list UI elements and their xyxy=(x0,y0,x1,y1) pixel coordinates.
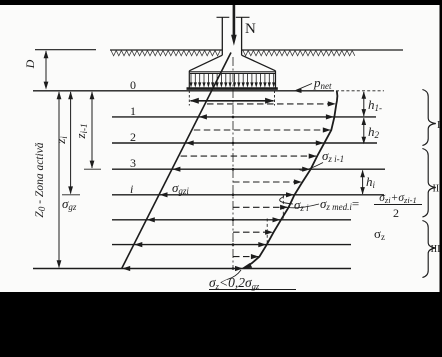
arrow to sigma-z curve xyxy=(286,192,294,197)
mid-layer dashed line xyxy=(207,103,335,105)
dimension h1 arrow xyxy=(363,92,365,116)
column cap tick right xyxy=(236,16,250,18)
comb top line xyxy=(190,73,275,75)
dimension zi arrow xyxy=(70,92,72,194)
arrow to sigma-z curve xyxy=(302,167,310,172)
load N arrow xyxy=(233,5,236,36)
svg-text:II: II xyxy=(433,184,440,195)
dimension Z0 arrow xyxy=(58,92,60,267)
contact pressure comb xyxy=(190,74,275,87)
svg-text:i: i xyxy=(130,182,133,196)
level line 7 xyxy=(33,268,351,270)
level line 6 xyxy=(112,244,351,246)
footing base thick line xyxy=(187,87,278,90)
level line i xyxy=(112,194,384,196)
curve end arrowhead xyxy=(241,263,252,269)
foundation center axis xyxy=(232,57,234,269)
arrow to sigma-gz diagonal xyxy=(147,217,155,222)
ground surface line xyxy=(35,49,96,51)
arrow to sigma-z curve xyxy=(326,114,334,119)
arrow to sigma-gz diagonal xyxy=(172,167,180,172)
svg-text:2: 2 xyxy=(130,130,136,144)
level line 3 xyxy=(112,168,385,170)
svg-text:N: N xyxy=(245,21,256,37)
svg-text:D: D xyxy=(23,59,37,69)
dimension hi arrow xyxy=(362,170,364,194)
arrow to sigma-z curve xyxy=(235,266,243,271)
column left line xyxy=(221,17,223,55)
svg-text:1: 1 xyxy=(130,104,136,118)
mid-layer dashed line xyxy=(194,129,330,131)
level line 0 xyxy=(33,90,334,92)
footing slab outline xyxy=(189,71,275,89)
svg-text:Z0 - Zona activă: Z0 - Zona activă xyxy=(34,142,47,217)
tick at level 3 for zi-1 xyxy=(84,168,101,170)
ground hatch right of column xyxy=(243,51,355,56)
svg-text:0: 0 xyxy=(130,78,136,92)
mid-layer dashed line xyxy=(233,206,288,208)
footing width extension right xyxy=(274,91,276,106)
scan border right xyxy=(440,0,442,357)
zone brace II xyxy=(422,149,435,218)
svg-text:σzi+σzi-1: σzi+σzi-1 xyxy=(379,192,417,205)
sigma-z,i-1 leader xyxy=(299,163,323,171)
arrow to sigma-gz diagonal xyxy=(160,192,168,197)
svg-text:III: III xyxy=(431,244,441,255)
p-net leader arrow xyxy=(296,84,312,91)
mid-layer dashed line xyxy=(233,231,273,233)
formula fraction bar xyxy=(374,204,422,206)
dimension D arrow xyxy=(45,51,47,88)
zone brace III xyxy=(422,221,435,278)
svg-text:2: 2 xyxy=(393,206,399,220)
footing width extension left xyxy=(188,91,190,106)
underline of bottom label xyxy=(209,289,296,291)
column right line xyxy=(241,17,243,55)
sigma-gz distribution diagonal xyxy=(122,53,231,269)
arrow to sigma-z curve xyxy=(258,242,266,247)
dimension h2 arrow xyxy=(363,118,365,143)
arrow to sigma-gz diagonal xyxy=(186,140,194,145)
level line 2 xyxy=(112,142,377,144)
tick at level i for zi xyxy=(62,194,80,196)
footing flare left xyxy=(189,55,222,71)
footing flare right xyxy=(242,55,276,71)
svg-text:3: 3 xyxy=(130,156,136,170)
sigma-z-med construction vertical 1 xyxy=(282,196,284,219)
sigma-z-med construction vertical 2 xyxy=(266,219,268,245)
sigma-zi leader xyxy=(280,197,293,205)
footing width dimension arrow xyxy=(191,100,274,102)
bottom label leader xyxy=(227,270,241,280)
ground hatch left of column xyxy=(111,51,220,56)
scan border top xyxy=(0,0,442,5)
level line 5 xyxy=(112,219,351,221)
arrow to sigma-gz diagonal xyxy=(122,266,130,271)
arrow to sigma-z curve xyxy=(273,217,281,222)
arrow to sigma-z curve xyxy=(316,140,324,145)
level line 1 xyxy=(112,116,376,118)
zone brace I xyxy=(422,90,435,146)
arrow to sigma-gz diagonal xyxy=(134,242,142,247)
mid-layer dashed line xyxy=(233,256,258,258)
mid-layer dashed line xyxy=(181,155,317,157)
mid-layer dashed line xyxy=(233,181,301,183)
column cap tick left xyxy=(217,16,230,18)
sigma-z stress curve xyxy=(244,91,338,269)
arrow to sigma-gz diagonal xyxy=(199,114,207,119)
dimension zi-1 arrow xyxy=(91,92,93,168)
scan border bottom xyxy=(0,292,442,357)
sigma-z-med leader xyxy=(288,204,319,208)
